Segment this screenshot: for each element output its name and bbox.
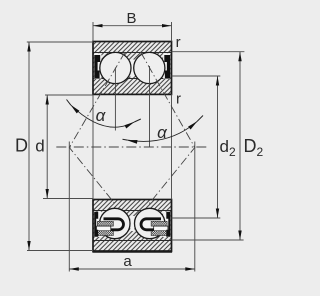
bore edge projection line right <box>171 94 173 199</box>
top section right seal <box>164 55 170 78</box>
right alpha arc inner tail <box>123 138 128 141</box>
left alpha arc outer arrowhead <box>71 105 80 114</box>
svg-text:a: a <box>123 253 132 270</box>
bottom section outline <box>93 200 172 252</box>
top section outline <box>93 42 172 95</box>
d extension bottom <box>43 198 93 200</box>
axis centerline <box>56 146 207 148</box>
a arrow right <box>185 267 195 270</box>
top left ball <box>100 52 131 83</box>
right pressure line <box>141 52 195 205</box>
right alpha arc <box>127 122 197 142</box>
left alpha arc <box>71 105 135 127</box>
svg-text:d: d <box>35 137 44 156</box>
bottom left ball <box>100 208 130 238</box>
a extension line right <box>194 142 196 272</box>
bottom section thick bottom edge <box>92 251 172 253</box>
d2 arrow top <box>216 76 219 86</box>
left alpha arc outer tail <box>67 100 71 106</box>
bottom right cage lower bar <box>151 231 167 236</box>
right alpha arc outer arrowhead <box>188 121 197 129</box>
D extension bottom <box>27 250 93 252</box>
svg-text:α: α <box>157 123 168 142</box>
d2 extension bottom <box>172 217 221 219</box>
D2 extension bottom <box>172 239 244 241</box>
top section seal recess white left <box>94 53 101 78</box>
B arrow left <box>93 24 103 27</box>
bottom bearing section hatched body <box>93 200 172 252</box>
svg-text:α: α <box>96 106 107 125</box>
D arrow top <box>27 42 30 52</box>
left pressure line <box>69 52 125 205</box>
bottom left cage upper bar <box>97 221 113 226</box>
D extension top <box>27 41 93 43</box>
d2 arrow bottom <box>216 209 219 219</box>
left alpha arc inner arrowhead <box>125 122 135 129</box>
svg-text:B: B <box>126 10 136 27</box>
top section seal recess white right <box>163 53 170 78</box>
svg-text:r: r <box>176 90 181 107</box>
top section left seal <box>94 55 100 78</box>
D2 extension top <box>172 51 245 53</box>
bore edge projection line left <box>92 94 94 199</box>
bottom right cage pocket <box>141 219 161 230</box>
d dimension line <box>46 95 48 199</box>
a extension line left <box>68 142 70 272</box>
d2 extension top <box>172 75 221 77</box>
D arrow bottom <box>27 241 30 251</box>
B arrow right <box>162 24 172 27</box>
svg-text:r: r <box>176 34 181 51</box>
right alpha arc outer tail <box>197 116 203 122</box>
bottom section left seal <box>94 212 98 237</box>
left ball radial line <box>114 68 116 131</box>
bottom section right seal <box>166 212 170 237</box>
bottom left cage pocket <box>104 219 124 230</box>
a dimension line <box>69 268 195 270</box>
gap between top balls <box>130 60 134 78</box>
right ball radial line <box>149 66 151 147</box>
D2 dimension line <box>239 52 241 240</box>
bottom section seal recess white left <box>94 212 101 238</box>
bottom right ball <box>135 208 165 238</box>
gap between bottom balls <box>130 216 134 231</box>
d arrow bottom <box>46 189 49 199</box>
right alpha arc inner arrowhead <box>127 140 138 144</box>
B extension line right <box>171 22 173 42</box>
D2 arrow top <box>238 52 241 62</box>
bottom section raceway boundary lines <box>93 211 172 241</box>
d arrow top <box>46 95 49 105</box>
bottom section seal recess white right <box>163 212 170 238</box>
d extension top <box>45 94 93 96</box>
bottom left cage lower bar <box>97 231 113 236</box>
bottom right cage upper bar <box>151 221 167 226</box>
top right ball <box>134 52 165 83</box>
bottom right cage slot <box>154 226 168 231</box>
bottom left cage slot <box>97 226 111 231</box>
svg-text:D: D <box>15 136 28 156</box>
left alpha arc inner tail <box>134 119 141 122</box>
D dimension line <box>28 42 30 251</box>
B extension line left <box>92 22 94 42</box>
D2 arrow bottom <box>238 231 241 241</box>
a arrow left <box>69 267 79 270</box>
d2 dimension line <box>217 76 219 218</box>
top section raceway boundary lines <box>93 53 172 79</box>
top bearing section hatched body <box>93 42 172 95</box>
B dimension line <box>93 25 172 27</box>
